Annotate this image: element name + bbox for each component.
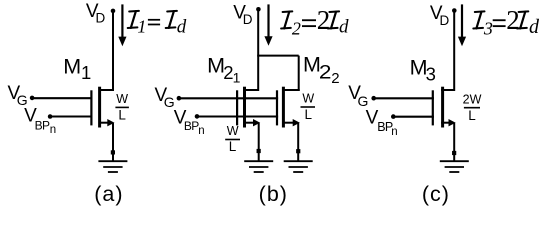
svg-text:n: n [198,125,204,137]
svg-text:d: d [529,16,540,38]
svg-text:1: 1 [233,69,241,85]
svg-text:(a): (a) [94,182,123,206]
svg-text:D: D [243,12,253,27]
svg-text:d: d [177,17,187,38]
svg-text:(c): (c) [422,182,450,206]
svg-text:d: d [339,17,349,38]
svg-text:n: n [391,126,397,138]
svg-text:W: W [302,92,314,106]
svg-text:2: 2 [506,5,520,35]
svg-text:3: 3 [483,19,493,39]
svg-text:W: W [116,92,128,106]
svg-text:2: 2 [292,19,301,39]
svg-text:W: W [227,124,239,138]
svg-text:L: L [118,108,126,123]
svg-text:3: 3 [426,64,436,85]
svg-text:1: 1 [137,17,146,37]
svg-text:2: 2 [331,70,339,87]
svg-text:M: M [63,55,81,79]
svg-text:2W: 2W [463,93,482,107]
svg-text:D: D [440,13,450,28]
svg-text:2: 2 [317,5,331,35]
svg-text:n: n [50,124,56,136]
svg-text:D: D [96,11,106,26]
svg-text:1: 1 [81,62,91,83]
svg-text:L: L [468,108,476,123]
svg-text:L: L [304,107,312,122]
svg-text:2: 2 [319,62,332,83]
svg-text:L: L [229,139,237,154]
svg-text:(b): (b) [259,182,288,206]
